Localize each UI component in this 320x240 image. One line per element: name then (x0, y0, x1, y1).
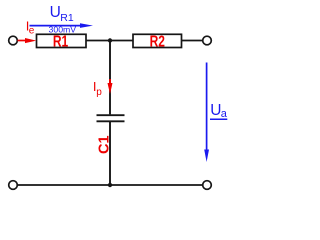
svg-text:e: e (29, 25, 35, 36)
label Ip (93, 79, 102, 98)
svg-text:R1: R1 (60, 12, 74, 24)
svg-text:R2: R2 (150, 32, 165, 50)
wire: capacitor down to bottom (109, 122, 111, 185)
svg-text:R1: R1 (53, 32, 68, 50)
svg-text:p: p (96, 87, 102, 98)
svg-text:a: a (221, 108, 228, 120)
voltage arrow Ua (204, 63, 209, 163)
label UR1 (50, 4, 74, 24)
terminal bottom-right (203, 181, 212, 190)
current arrow Ip (108, 79, 113, 94)
capacitor C1 (96, 115, 124, 154)
resistor R1 (37, 32, 87, 50)
current arrow Ie (18, 38, 37, 43)
terminal bottom-left (9, 181, 18, 190)
label Ie (26, 18, 35, 36)
terminal input top-left (9, 36, 18, 45)
wire top: R1 to R2 (86, 40, 133, 42)
node junction bottom (108, 183, 112, 187)
resistor R2 (133, 32, 182, 50)
wire bottom (17, 184, 202, 186)
node junction top (108, 38, 112, 42)
wire top: R2 to output (182, 40, 203, 42)
svg-text:300mV: 300mV (49, 25, 77, 35)
label Ua (210, 102, 228, 120)
wire: junction down to capacitor (109, 41, 111, 115)
terminal output top-right (203, 36, 212, 45)
voltage arrow UR1 (30, 23, 94, 28)
svg-text:U: U (50, 4, 61, 21)
svg-text:C1: C1 (96, 135, 112, 154)
